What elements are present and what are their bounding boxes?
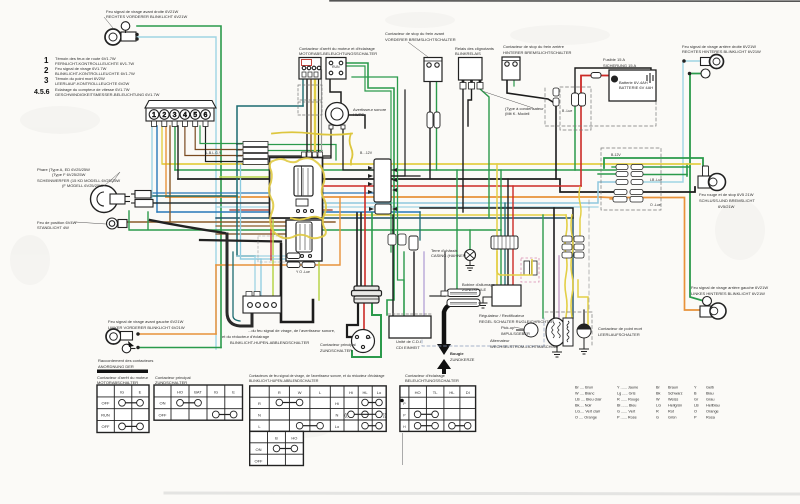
speedometer drop black pin6 [177,126,179,179]
svg-text:Gelb: Gelb [706,386,714,390]
svg-text:BLINKRELAIS: BLINKRELAIS [455,51,481,56]
svg-text:LG.... Vert clair: LG.... Vert clair [575,410,601,414]
svg-text:Raccordement des contacteurs: Raccordement des contacteurs [98,358,153,363]
label line front brake [408,42,428,57]
rear brake inline connectors [553,88,559,106]
svg-text:P ...... Rose: P ...... Rose [617,416,637,420]
svg-text:Hi: Hi [335,401,339,406]
ignition red wire [364,186,366,288]
green row 2 [598,173,616,175]
svg-text:LINKES HINTERES BLINKLICHT: LINKES HINTERES BLINKLICHT 6V21W [691,291,765,296]
wire black stop switch right box [330,80,365,128]
svg-text:Régulateur / Rectificateur: Régulateur / Rectificateur [479,313,525,318]
battery green below connector [574,106,576,170]
svg-text:B-12V: B-12V [611,153,621,157]
svg-text:STANDLICHT 4W: STANDLICHT 4W [37,225,69,230]
wire lightblue rear-right turn signal drop [643,61,700,182]
svg-text:MOTORABS-BELEUCHTUNGSSCHALTER: MOTORABS-BELEUCHTUNGSSCHALTER [299,51,377,56]
wire green chassis ground drop [469,230,471,250]
wire green lighting loop [346,63,394,315]
wire red regulator drop [512,186,514,285]
dashed box condenser type [545,88,656,126]
svg-text:IG: IG [120,390,124,395]
wire teal horn feed [237,106,303,256]
wire green tail light vertical [686,164,688,176]
wire yellow alternator run [310,214,566,216]
wire green lighting pair b [346,66,391,252]
flasher relay black wire a [462,89,464,212]
svg-text:Weiss: Weiss [668,398,678,402]
svg-text:RUN: RUN [101,412,110,417]
wire blue main harness [157,211,420,213]
svg-text:VORDERER BREMSLICHTSCHALTER: VORDERER BREMSLICHTSCHALTER [385,37,456,42]
svg-text:2: 2 [162,112,166,119]
ground alternator [552,346,562,357]
turn signal switch block [243,292,281,314]
wire red main harness [310,185,581,187]
stop switch drop yellow thick [314,70,316,162]
svg-text:G ...... Vert: G ...... Vert [617,410,636,414]
stop switch drop teal [302,70,304,106]
svg-text:CASING (HAHNEN: CASING (HAHNEN [431,253,466,258]
svg-text:GESCHWINDIGKEITSMESSER-BELEUCH: GESCHWINDIGKEITSMESSER-BELEUCHTUNG 6V1.7… [55,92,160,97]
position lamp [107,218,128,229]
svg-text:HO: HO [177,390,183,395]
svg-text:Bk: Bk [656,392,661,396]
wire lightgreen dimmer vertical [220,177,273,296]
harness sheath hook left [227,234,252,326]
svg-text:)): )) [383,413,387,419]
svg-text:et du réducteur d'éclairage: et du réducteur d'éclairage [222,334,270,339]
svg-text:LG: LG [656,404,661,408]
green loop connector stack top [604,158,703,168]
svg-text:Y ...... Jaune: Y ...... Jaune [617,386,638,390]
wire black upper alternator run [420,208,573,218]
wire black switch thick vertical [281,244,313,322]
wire yellow alternator wavy b [571,215,573,317]
svg-text:LEERLAUFSCHALTER: LEERLAUFSCHALTER [598,332,640,337]
svg-text:6: 6 [204,112,208,119]
wire black main harness [178,179,616,192]
table engine stop switch [97,385,149,433]
speedometer brown jumper c [206,126,244,162]
stop switch drop black a [306,70,308,162]
horn wire black b [343,128,374,170]
connector pair row3 [616,180,643,185]
svg-text:1: 1 [152,112,156,119]
svg-text:RECHTES HINTERES BLINKLICHT 6V: RECHTES HINTERES BLINKLICHT 6V21W [682,49,761,54]
connector pair row1 [616,165,643,170]
svg-text:Unité de C.D.I: Unité de C.D.I [396,339,421,344]
cdi wire green a [403,252,405,316]
wire orange dimmer riser [215,265,217,334]
svg-text:SICHERUNG 15 A: SICHERUNG 15 A [603,63,636,68]
connector row switch top [302,152,323,159]
wire yellow regulator loop [497,251,532,275]
dashed line lighting harness [588,200,590,310]
wire green pickup drop [542,215,544,318]
stain below lighting table [402,433,404,465]
svg-text:LEERLAUF-KONTROLLLEUCHTE 6V2W: LEERLAUF-KONTROLLLEUCHTE 6V2W [55,81,129,86]
svg-text:Feu signal de virage arrière g: Feu signal de virage arrière gauche 6V21… [691,285,768,290]
wire black neutral stub [583,310,585,325]
svg-text:B…12V: B…12V [360,151,373,155]
svg-text:BLINKLICHT-HUPEN-ABBLENDSCHALT: BLINKLICHT-HUPEN-ABBLENDSCHALTER [249,379,319,383]
svg-text:4: 4 [183,112,187,119]
cdi wire black b [413,252,415,316]
wire black headlight low [153,202,280,204]
red wire connector to harness [580,106,582,186]
svg-text:BATTERIE 6V 4AH: BATTERIE 6V 4AH [619,85,653,90]
green row to connector 1 [612,166,616,168]
wire blue headlight run [153,192,374,194]
wire orange rear-left turn signal [166,197,700,310]
TABLES [97,373,720,466]
wire brown harness lower [216,233,310,235]
svg-text:BELEUCHTUNGSSCHALTER: BELEUCHTUNGSSCHALTER [405,378,459,383]
svg-text:W: W [656,398,660,402]
speedometer drop green pin5 [174,126,176,170]
svg-text:E: E [232,390,235,395]
condenser option boxes [521,258,539,282]
svg-text:3: 3 [173,112,177,119]
connector pair row2 [616,172,643,177]
wire green stack jumper lower [268,150,322,152]
svg-text:((: (( [344,413,348,419]
wire yellow handlebar run [272,132,353,164]
headlight [91,186,131,213]
svg-text:Bougie: Bougie [450,351,464,356]
battery connector red [579,93,586,106]
battery connector black [572,93,579,106]
stop switch drop brown [310,70,312,162]
connector cluster lighting [562,236,584,258]
svg-text:WECHSELSTROM-LICHTMASCHINE: WECHSELSTROM-LICHTMASCHINE [490,344,559,349]
wire darkred handlebar run [230,209,332,211]
flasher relay [459,58,484,90]
engine stop switch box left [299,58,321,80]
svg-text:Pick-up: Pick-up [501,325,515,330]
cdi wire gray to coil [430,295,445,297]
dashed box cdi alternator bottom [422,318,544,346]
svg-text:1: 1 [44,56,49,65]
svg-text:HO: HO [291,436,297,441]
svg-text:HUPE: HUPE [353,112,364,117]
label line position lamp [75,222,106,224]
stop switch drop black b [318,70,320,162]
wire green bulb feed [705,176,707,178]
speedometer drop brown pin4 [169,126,171,222]
svg-text:HL: HL [362,390,368,395]
wire brown second run [216,225,310,227]
ignition black wire b [360,213,362,288]
wire lightblue front-right turn signal to harness [137,37,216,349]
svg-text:R: R [258,401,261,406]
wire teal inside hook [233,252,240,321]
wire green to coil [456,170,458,289]
svg-text:Lg ..... Gris: Lg ..... Gris [617,392,636,396]
svg-text:Schwarz: Schwarz [668,392,683,396]
cdi wire violet [423,252,425,316]
svg-text:O .... Orange: O .... Orange [575,416,597,420]
svg-text:Feu signal de virage avant gau: Feu signal de virage avant gauche 6V21W [108,319,184,324]
neutral indicator [577,324,591,338]
dashed box battery area [560,87,591,130]
fuse [591,73,601,79]
speedometer drop orange [165,126,167,197]
svg-text:BAT: BAT [366,336,372,340]
dashed box stop switch lower2 [298,102,322,115]
spark plug gap arrow [437,359,451,374]
wire lightblue vertical to switch b [260,259,262,296]
svg-text:MOTORABSCHALTER: MOTORABSCHALTER [97,380,138,385]
svg-text:Feu rouge et de stop 6V5 21W: Feu rouge et de stop 6V5 21W [699,192,754,197]
connector stack 4way [236,142,268,165]
wire green headlight small loop [147,212,149,229]
fuse red wire [601,75,612,77]
svg-text:LB .... Bleu clair: LB .... Bleu clair [575,398,602,402]
label line condenser [482,91,533,108]
svg-text:Fusible 15 A: Fusible 15 A [603,57,625,62]
label line front-right [104,17,113,28]
wire green lighting branch [352,77,404,316]
scan edge bottom [165,493,800,494]
spark plug arrowhead [437,344,451,355]
svg-text:Br .... Brun: Br .... Brun [575,386,593,390]
svg-text:HO: HO [415,390,421,395]
svg-text:Lo: Lo [335,424,340,429]
cdi unit [389,316,431,338]
rear brake switch black wire [507,80,556,179]
chassis ground [465,250,476,271]
battery negative loop [575,68,651,93]
tail light bulb holder [703,166,709,176]
alternator stator box [563,318,573,346]
svg-text:...du feu signal de virage, de: ...du feu signal de virage, de l'avertis… [248,328,335,333]
headlight connector b [131,200,153,208]
wire black regulator drop [507,179,509,285]
dimmer connectors [287,253,315,268]
svg-text:ON: ON [160,401,166,406]
svg-text:3: 3 [44,76,49,85]
svg-text:ZUNDSPULE: ZUNDSPULE [462,287,487,292]
svg-text:2: 2 [44,66,49,75]
wire green left front turn signal [139,347,221,349]
wire lightblue vertical to switch a [254,256,256,296]
battery [609,70,656,101]
coil feed gray vertical [444,252,446,296]
svg-text:G: G [656,416,659,420]
wire orange left front turn signal [139,333,216,335]
svg-text:Contacteur principal: Contacteur principal [320,342,356,347]
svg-text:BLINKLICHT-HUPEN-ABBLENDSCHALT: BLINKLICHT-HUPEN-ABBLENDSCHALTER [230,340,309,345]
svg-text:OFF: OFF [255,458,264,463]
svg-text:4.5.6: 4.5.6 [34,89,50,96]
svg-text:CDI EINHEIT: CDI EINHEIT [396,345,420,350]
svg-text:E: E [139,390,142,395]
wire brown position lamp feed [127,221,335,223]
yellow scribble around switch overlay [269,158,326,238]
scan smudges [10,12,765,438]
svg-text:Grau: Grau [706,398,714,402]
ignition coil [441,289,480,307]
svg-text:B -Lue: B -Lue [562,109,572,113]
ignition switch drum [352,286,382,303]
svg-text:RUN: RUN [332,65,340,69]
svg-text:HL: HL [449,390,455,395]
svg-text:O: O [694,410,697,414]
svg-text:R: R [656,410,659,414]
svg-text:HINTERER BREMSLICHTSCHALTER: HINTERER BREMSLICHTSCHALTER [503,50,571,55]
table horn sub [250,431,304,465]
wire black alternator drop [553,208,555,318]
svg-text:W .... Blanc: W .... Blanc [575,392,595,396]
svg-text:ANORDNUNG DER: ANORDNUNG DER [98,364,134,369]
wire yellow regulator drop [496,164,498,285]
svg-text:SCHLUSS-UND BREMSLICHT: SCHLUSS-UND BREMSLICHT [699,198,755,203]
speedometer brown jumper a [185,126,243,156]
svg-text:Alternateur: Alternateur [490,338,510,343]
wire lightblue switch drop a [237,255,300,257]
cdi wire black a [392,215,394,316]
wire green main harness [175,169,616,171]
flasher relay green wire [480,89,489,218]
rear brake switch yellow wire [513,80,515,86]
svg-text:ZUNDSCHALTER: ZUNDSCHALTER [155,380,187,385]
dashed box alternator [545,312,592,345]
connector cluster cdi [388,234,418,250]
wire black stack out [268,155,330,157]
front brake switch green wire right [436,80,438,170]
table turn signal switch [250,386,387,432]
svg-text:R: R [278,390,281,395]
wire green rear-right turn signal drop [690,74,704,302]
dashed wire marker cdi [388,313,432,315]
wire yellow jog [578,280,588,330]
svg-text:Braun: Braun [668,386,678,390]
color legend [575,386,720,420]
ignition red below drum [363,303,365,331]
wire yellow alternator wavy a [565,215,567,317]
speedometer connector [145,101,216,127]
speedometer brown jumper b [195,126,243,150]
svg-text:BAT: BAT [194,390,202,395]
svg-text:LB: LB [694,404,699,408]
wire lightblue dimmer second [241,165,262,259]
svg-text:B: B [275,436,278,441]
wire green stack jumper upper [268,145,336,161]
regulator rectifier [492,285,521,306]
speedometer drop yellow pin3 [161,126,163,164]
svg-text:OFF: OFF [102,401,111,406]
engine stop switch box right [326,58,346,80]
svg-text:Gr: Gr [694,398,699,402]
svg-text:Blau: Blau [706,392,714,396]
harness connector regulator [491,236,518,249]
front brake switch [424,58,442,129]
ignition green wrap [352,303,381,357]
svg-text:L.B.L.G.Y: L.B.L.G.Y [206,151,222,155]
svg-text:LB -Lue: LB -Lue [650,178,662,182]
wire darkblue harness to neutral [216,218,573,318]
speedometer drop blue pin2 [156,126,158,212]
ground neutral [579,338,589,354]
dashed box dimmer connectors [258,236,290,262]
ignition black wire a [356,213,358,288]
svg-text:IMPULSGEBER: IMPULSGEBER [501,331,530,336]
wire black main connector stub [391,175,420,177]
lamp rear-right turn signal [683,55,724,79]
wire yellow cluster drop [579,187,581,236]
handlebar switch lower box [286,220,322,261]
green row out 1 [643,166,690,168]
table lighting switch [400,386,476,432]
handlebar switch assembly box [270,158,323,219]
svg-text:ZUNDSCHALTER: ZUNDSCHALTER [320,348,352,353]
svg-text:Rosa: Rosa [706,416,716,420]
svg-text:N: N [258,413,261,418]
wire green regulator drop [500,170,502,285]
ignition green wire [371,213,373,288]
label line headlight [104,172,120,186]
black bar [97,370,148,374]
wire green ground run to regulator [457,229,501,231]
dashed box connector area [601,148,661,210]
svg-text:Contacteur de stop du frein ar: Contacteur de stop du frein arrière [503,44,565,49]
horn wire black a [322,128,331,158]
dashed box stop switch lower [298,85,322,100]
svg-text:Bk.... Noir: Bk.... Noir [575,404,592,408]
svg-text:Contacteur de stop du frein av: Contacteur de stop du frein avant [385,31,445,36]
svg-text:(Type F 6V25/25W: (Type F 6V25/25W [52,172,86,177]
svg-text:R ...... Rouge: R ...... Rouge [617,398,639,402]
wire lightblue main harness [152,182,616,203]
connector pair row4 [614,190,643,195]
svg-text:6V5/21W: 6V5/21W [718,204,735,209]
harness sheath run to switch [200,240,281,242]
svg-text:ZUNDKERZE: ZUNDKERZE [450,357,475,362]
pickup coil [516,323,538,337]
orange connector row [610,198,616,200]
svg-text:Bl ...... Bleu: Bl ...... Bleu [617,404,636,408]
wire lightblue switch drop b [241,258,296,260]
wire teal cdi [419,212,421,240]
svg-text:LINKER VORDERER BLINKLICHT 6: LINKER VORDERER BLINKLICHT 6V21W [108,325,185,330]
wire teal regulator drop [504,203,506,285]
horn [326,103,349,130]
svg-text:(Mit K. Modell: (Mit K. Modell [505,111,530,116]
wire lightgreen right of switch [318,222,320,300]
wire green front-right turn signal to harness [137,26,221,348]
stop switch drop gray [321,70,323,162]
svg-text:Contacteur de point mort: Contacteur de point mort [598,326,643,331]
flasher relay black wire b [468,89,472,126]
wire lightblue second run [216,206,598,208]
svg-text:5: 5 [193,112,197,119]
tail light [698,174,726,191]
main harness connector upper [368,159,397,202]
main harness connector lower [369,204,397,214]
ignition black below drum [347,303,358,337]
lamp front-left turn signal [106,329,139,353]
wire green headlight ground run [129,211,457,230]
front brake switch black wire left [429,80,431,179]
lamp front-right turn signal [105,22,138,45]
ignition switch plate [352,330,375,353]
svg-text:O -Lue: O -Lue [650,203,661,207]
svg-text:Y O -Lue: Y O -Lue [296,270,310,274]
wire red left of switch [270,186,272,260]
